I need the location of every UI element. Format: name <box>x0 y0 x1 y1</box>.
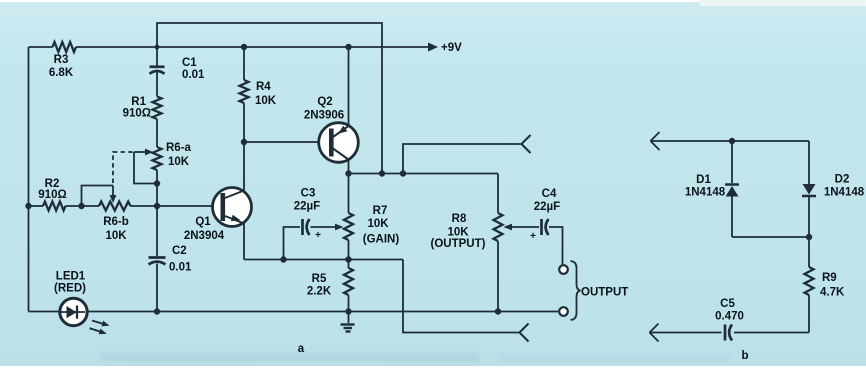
wire R6-a wiper loop <box>134 152 157 184</box>
potentiometer R8 <box>494 213 503 241</box>
svg-text:D2: D2 <box>835 174 850 186</box>
svg-text:LED1: LED1 <box>56 271 86 283</box>
junction rail-R2 <box>25 203 31 209</box>
svg-text:0.470: 0.470 <box>715 311 744 323</box>
svg-text:C2: C2 <box>172 245 187 257</box>
wire rail-R4 <box>243 47 245 80</box>
ground <box>341 312 355 332</box>
junction rail-R4 <box>241 44 247 50</box>
svg-text:(GAIN): (GAIN) <box>363 234 400 246</box>
svg-text:910Ω: 910Ω <box>38 189 66 201</box>
connector output tip <box>559 265 568 274</box>
svg-text:910Ω: 910Ω <box>123 108 151 120</box>
diode D1 <box>725 185 739 197</box>
wire node-R7 <box>348 174 350 214</box>
svg-text:OUTPUT: OUTPUT <box>581 287 628 299</box>
wire D2 leads <box>808 141 810 237</box>
wire C2 column <box>156 206 158 256</box>
brace output <box>571 261 581 320</box>
wiper R8 arrow <box>504 224 540 231</box>
wire +9V rail <box>29 46 429 48</box>
svg-text:b: b <box>741 350 748 362</box>
svg-text:R1: R1 <box>131 96 146 108</box>
svg-text:6.8K: 6.8K <box>49 67 74 79</box>
wire C1 column <box>156 47 158 66</box>
svg-text:2.2K: 2.2K <box>307 286 332 298</box>
junction D2 bottom <box>806 234 812 240</box>
junction C2-bottom <box>154 308 160 314</box>
svg-text:R8: R8 <box>452 213 467 225</box>
power +9V arrow <box>428 42 462 54</box>
connector b bottom arrow <box>650 324 659 342</box>
potentiometer R7 <box>344 213 353 240</box>
junction Q2c <box>345 170 351 176</box>
capacitor C3 <box>303 219 322 241</box>
capacitor C5 <box>725 325 732 341</box>
wire R4-node <box>243 103 245 142</box>
wire Q1 emitter <box>243 222 245 260</box>
junction loop-node <box>379 170 385 176</box>
dashed gang coupling R6 <box>113 152 134 183</box>
connector lower open <box>520 324 529 342</box>
svg-text:(OUTPUT): (OUTPUT) <box>431 238 486 250</box>
svg-text:10K: 10K <box>105 230 127 242</box>
svg-text:a: a <box>298 343 305 355</box>
junction gnd <box>345 308 351 314</box>
svg-text:0.01: 0.01 <box>169 262 192 274</box>
svg-text:2N3904: 2N3904 <box>184 230 225 242</box>
diode D2 <box>802 184 816 196</box>
wire b inner bottom <box>732 236 809 238</box>
svg-text:1N4148: 1N4148 <box>685 187 726 199</box>
svg-text:C3: C3 <box>301 188 316 200</box>
wire left rail <box>28 47 30 312</box>
capacitor C2 <box>149 258 166 265</box>
junction rail-Q2e <box>345 44 351 50</box>
wiper R7 arrow <box>311 224 344 231</box>
potentiometer R6-b <box>99 202 131 211</box>
transistor Q1 <box>213 188 252 227</box>
junction R4-Q2 base <box>241 139 247 145</box>
svg-text:0.01: 0.01 <box>182 69 205 81</box>
junction R6-a loop <box>154 180 160 186</box>
wire lower output branch <box>403 260 520 333</box>
junction D1 top <box>729 138 735 144</box>
svg-text:+: + <box>315 230 321 241</box>
resistor R4 <box>240 80 249 103</box>
svg-text:+: + <box>530 231 536 242</box>
svg-text:C5: C5 <box>720 298 735 310</box>
svg-text:1N4148: 1N4148 <box>824 187 865 199</box>
connector b top arrow <box>651 132 660 150</box>
wire R2 row <box>29 205 213 207</box>
junction R8-bottom <box>495 308 501 314</box>
junction R7-R5 <box>345 256 351 262</box>
svg-text:10K: 10K <box>447 227 469 239</box>
junction R2-R6b <box>78 203 84 209</box>
svg-text:(RED): (RED) <box>54 283 86 295</box>
svg-text:C4: C4 <box>542 188 557 200</box>
resistor R1 <box>153 97 162 120</box>
wire Q2 collector <box>348 158 350 174</box>
transistor Q2 <box>319 123 359 163</box>
led LED1 <box>60 298 87 325</box>
wire R6a-base row <box>156 170 158 206</box>
wiper R6-b arrow <box>110 186 117 204</box>
connector output sleeve <box>559 307 568 316</box>
svg-text:10K: 10K <box>168 156 190 168</box>
wire bottom row <box>29 311 559 313</box>
junction rail-C1 <box>155 45 160 50</box>
capacitor C1 <box>150 67 165 74</box>
wire R1-R6a <box>156 119 158 147</box>
svg-text:22µF: 22µF <box>294 201 320 213</box>
wire collector node row <box>349 173 499 175</box>
wiper R6-a arrow <box>134 149 153 156</box>
wire R5 leads <box>348 260 350 312</box>
wire upper output branch <box>403 144 522 174</box>
potentiometer R6-a <box>153 147 162 170</box>
junction C3 tap <box>280 256 286 262</box>
wire Q1 collector <box>243 142 245 192</box>
svg-text:R6-b: R6-b <box>103 216 129 228</box>
svg-text:D1: D1 <box>696 174 711 186</box>
wire R6-b wiper loop <box>82 186 114 207</box>
capacitor C4 <box>530 219 548 242</box>
junction base node <box>154 203 160 209</box>
wire R8-bottom <box>497 241 499 312</box>
wire emitter row <box>244 259 403 261</box>
svg-text:22µF: 22µF <box>534 201 560 213</box>
resistor R5 <box>344 268 353 295</box>
svg-text:10K: 10K <box>367 218 389 230</box>
connector upper open <box>522 135 531 153</box>
wire top loop <box>157 23 382 174</box>
svg-text:R9: R9 <box>822 272 837 284</box>
svg-text:R3: R3 <box>54 54 69 66</box>
resistor R3 <box>53 42 77 52</box>
svg-text:R4: R4 <box>256 81 271 93</box>
wire node-R8 <box>497 174 499 214</box>
svg-text:R7: R7 <box>373 205 388 217</box>
led LED1 light arrows <box>90 321 110 335</box>
wire D1 leads <box>731 141 733 237</box>
svg-text:2N3906: 2N3906 <box>304 110 344 122</box>
junction out-branch <box>400 170 406 176</box>
wire b top <box>651 140 810 142</box>
svg-text:4.7K: 4.7K <box>820 287 845 299</box>
svg-text:R6-a: R6-a <box>166 142 192 154</box>
wire R7-emitter row <box>348 240 350 260</box>
wire C2-bottom <box>156 264 158 312</box>
resistor R9 <box>805 267 814 295</box>
svg-text:Q1: Q1 <box>195 216 211 228</box>
wire C3 tap <box>284 227 301 260</box>
svg-text:C1: C1 <box>182 57 197 69</box>
wire b bottom <box>650 332 810 334</box>
wire Q2 emitter <box>348 47 350 127</box>
svg-text:+9V: +9V <box>441 42 462 54</box>
resistor R2 <box>43 202 66 211</box>
wire C4-jack <box>549 227 563 266</box>
svg-text:R5: R5 <box>312 273 327 285</box>
wire Q2 base <box>244 141 320 143</box>
wire D2-R9 <box>808 237 810 267</box>
wire C1-R1 <box>156 73 158 97</box>
wire R9-bottom <box>808 295 810 333</box>
svg-text:Q2: Q2 <box>317 96 332 108</box>
svg-text:10K: 10K <box>255 95 277 107</box>
